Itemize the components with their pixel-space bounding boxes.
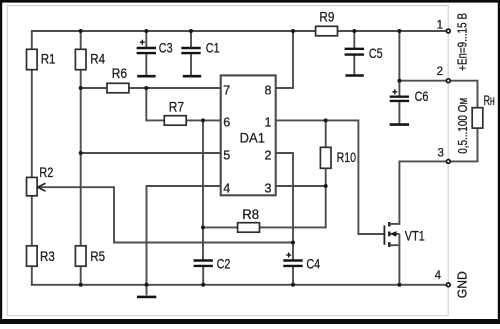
svg-text:+Eп=9...15 В: +Eп=9...15 В bbox=[456, 13, 470, 71]
svg-text:1: 1 bbox=[437, 20, 443, 32]
node R6 left bbox=[79, 86, 83, 90]
svg-text:Rн: Rн bbox=[484, 93, 495, 108]
resistor R9 bbox=[316, 10, 338, 36]
wire pin6 node down to C2 bbox=[202, 120, 204, 259]
ground bar under C3 bbox=[137, 75, 155, 78]
wire R4-R5 column bbox=[80, 31, 82, 285]
svg-text:2: 2 bbox=[265, 148, 272, 162]
capacitor C1 bbox=[181, 40, 219, 55]
wire C4 bottom lead bbox=[292, 267, 294, 285]
wire top rail bbox=[32, 31, 446, 50]
wire C3 bottom lead bbox=[145, 54, 147, 75]
svg-text:3: 3 bbox=[437, 148, 443, 160]
svg-text:R5: R5 bbox=[90, 249, 105, 264]
resistor R5 bbox=[75, 246, 105, 266]
resistor R8 bbox=[238, 207, 260, 232]
svg-text:R6: R6 bbox=[112, 66, 127, 81]
resistor R10 bbox=[320, 147, 356, 168]
svg-text:4: 4 bbox=[435, 270, 442, 282]
svg-text:R1: R1 bbox=[41, 52, 56, 67]
svg-text:R7: R7 bbox=[169, 100, 184, 115]
potentiometer R2 bbox=[27, 165, 54, 196]
capacitor C6 bbox=[390, 89, 429, 104]
svg-text:R3: R3 bbox=[40, 249, 55, 264]
node pin5 left bbox=[79, 151, 83, 155]
node R5 bottom bbox=[79, 283, 83, 287]
svg-text:C1: C1 bbox=[206, 40, 220, 55]
svg-text:GND: GND bbox=[456, 271, 470, 298]
node VT1 source bottom bbox=[397, 283, 401, 287]
wire bottom rail bbox=[32, 284, 446, 286]
wire terminal2 row left bbox=[399, 80, 446, 82]
wire pin5 row bbox=[81, 152, 221, 154]
node C6 top rail bbox=[397, 29, 401, 33]
capacitor C5 bbox=[345, 46, 383, 61]
node R6 right / R7 branch bbox=[144, 86, 148, 90]
node pin8 top bbox=[291, 29, 295, 33]
wire C1 bottom lead bbox=[190, 54, 192, 75]
node pin3 / R10 bottom bbox=[324, 184, 328, 188]
transistor VT1 bbox=[384, 222, 424, 247]
wire pin8 to top rail bbox=[276, 31, 293, 88]
svg-text:1: 1 bbox=[265, 116, 272, 130]
svg-text:C5: C5 bbox=[369, 46, 383, 61]
svg-text:7: 7 bbox=[223, 83, 230, 97]
wire C5 top lead bbox=[353, 31, 355, 48]
ground bar under C1 bbox=[183, 75, 201, 78]
svg-text:C6: C6 bbox=[415, 89, 429, 104]
node R4 top bbox=[79, 29, 83, 33]
wire pin2 down to C4 bbox=[276, 153, 293, 259]
wire terminal3 to VT1 drain bbox=[399, 161, 446, 224]
node ground bbox=[145, 283, 149, 287]
terminal 1 bbox=[437, 20, 451, 33]
node C5 top bbox=[352, 29, 356, 33]
wire VT1 source to bottom rail bbox=[398, 245, 400, 285]
wire C3 top lead bbox=[145, 31, 147, 47]
capacitor C2 bbox=[194, 257, 231, 272]
svg-text:0,5...100 Ом: 0,5...100 Ом bbox=[456, 98, 470, 154]
wire C6 column from top rail bbox=[398, 31, 400, 96]
svg-text:R8: R8 bbox=[242, 207, 259, 222]
node wiper / pin2 leg bbox=[291, 241, 295, 245]
node pin6 / R7 right bbox=[201, 118, 205, 122]
svg-text:C4: C4 bbox=[306, 257, 320, 272]
svg-text:C2: C2 bbox=[217, 257, 231, 272]
svg-text:4: 4 bbox=[223, 181, 230, 195]
svg-text:R9: R9 bbox=[319, 10, 334, 25]
resistor R4 bbox=[75, 49, 105, 69]
resistor Rn load bbox=[472, 93, 495, 128]
resistor R3 bbox=[27, 246, 55, 266]
terminal 3 bbox=[437, 148, 450, 164]
wire R10 column bbox=[325, 120, 327, 186]
wire pin1 to gate bbox=[276, 120, 385, 234]
op-amp IC DA1 box bbox=[221, 75, 276, 195]
ground bar under C5 bbox=[345, 74, 363, 77]
svg-text:R2: R2 bbox=[39, 165, 53, 180]
svg-text:R4: R4 bbox=[90, 52, 105, 67]
wire pin3 row bbox=[276, 185, 326, 187]
wire R2 wiper to pin2 leg bbox=[39, 187, 294, 242]
wire C5 bottom lead bbox=[353, 55, 355, 74]
node C2 bottom bbox=[201, 283, 205, 287]
wire C1 top lead bbox=[190, 31, 192, 47]
resistor R7 bbox=[164, 100, 186, 126]
wire R9 span of top rail bbox=[300, 30, 350, 32]
resistor R6 bbox=[107, 66, 129, 93]
node C6 / terminal2 row bbox=[397, 79, 401, 83]
node pin1 / R10 top bbox=[324, 118, 328, 122]
node C3 top bbox=[144, 29, 148, 33]
terminal 2 bbox=[437, 66, 451, 82]
svg-text:6: 6 bbox=[223, 116, 230, 130]
node C4 bottom bbox=[291, 283, 295, 287]
svg-text:2: 2 bbox=[437, 66, 443, 78]
ground symbol bbox=[137, 285, 156, 297]
resistor R1 bbox=[27, 49, 56, 69]
svg-text:R10: R10 bbox=[337, 150, 356, 165]
wire pin7 row with R6 bbox=[81, 87, 221, 89]
wire C6 bottom lead bbox=[398, 102, 400, 123]
terminal 4 bbox=[435, 270, 451, 286]
svg-text:C3: C3 bbox=[159, 40, 173, 55]
svg-text:5: 5 bbox=[223, 148, 230, 162]
wire R8 row to pin3 node bbox=[203, 186, 326, 227]
wire terminal2 to Rn to terminal3 bbox=[451, 81, 478, 162]
capacitor C4 bbox=[283, 253, 320, 272]
node C1 top bbox=[189, 29, 193, 33]
svg-text:8: 8 bbox=[265, 83, 272, 97]
wire R1-R2-R3 column bbox=[31, 50, 33, 285]
wire C2 bottom lead bbox=[202, 267, 204, 285]
svg-text:DA1: DA1 bbox=[240, 130, 265, 145]
node R8 left bbox=[201, 225, 205, 229]
ground bar under C6 bbox=[390, 123, 409, 126]
svg-text:VT1: VT1 bbox=[405, 228, 425, 243]
capacitor C3 bbox=[137, 40, 173, 56]
svg-text:3: 3 bbox=[265, 181, 272, 195]
wire pin4 to ground column bbox=[147, 186, 221, 285]
wire R7 branch from pin7 node bbox=[146, 88, 220, 120]
